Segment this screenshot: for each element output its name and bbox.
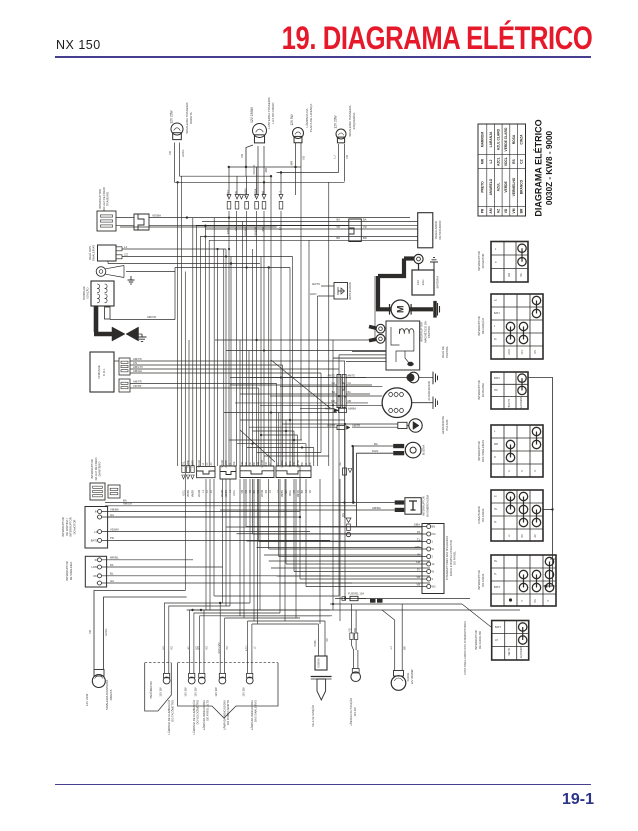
svg-text:BRANCO: BRANCO [520, 179, 524, 194]
svg-text:AM/GA: AM/GA [123, 502, 132, 506]
panel connector pin 3 [427, 577, 431, 581]
svg-text:SELTR: SELTR [509, 648, 511, 656]
CDI connector lower [119, 379, 130, 392]
svg-text:AM/BR: AM/BR [225, 460, 228, 468]
svg-text:PARTIDA: PARTIDA [427, 326, 431, 338]
svg-text:12V 23W: 12V 23W [170, 110, 174, 123]
wire starter relay AV [346, 361, 386, 363]
battery thick cable [404, 256, 414, 260]
panel connector pin 2 [427, 555, 431, 559]
svg-text:12V 3W: 12V 3W [242, 687, 246, 697]
svg-text:PLACA DE LICENÇA: PLACA DE LICENÇA [309, 104, 313, 133]
CDI connector upper [119, 358, 130, 375]
wire headlight [394, 640, 396, 671]
wire strip downfeeds left [205, 479, 207, 610]
lamp front right turn signal [92, 675, 105, 688]
svg-text:ALTERNADOR: ALTERNADOR [427, 381, 431, 401]
bullet fuse left [342, 597, 346, 601]
svg-text:LÂMPADA DE ILUMINAÇÃO: LÂMPADA DE ILUMINAÇÃO [166, 700, 171, 734]
svg-text:AM/BA: AM/BA [372, 506, 381, 510]
cable connector arrows [112, 327, 125, 341]
svg-text:MR: MR [264, 167, 268, 172]
wire horn DGN [357, 453, 394, 527]
alternator ground [412, 397, 438, 410]
svg-text:12V 3W: 12V 3W [184, 687, 188, 697]
svg-text:INTERRUPTOR: INTERRUPTOR [422, 496, 426, 515]
svg-text:C.D.I.: C.D.I. [102, 368, 106, 376]
svg-text:DIREITA: DIREITA [189, 112, 193, 124]
svg-text:W3: W3 [432, 585, 436, 589]
svg-text:CZ: CZ [124, 252, 128, 256]
svg-text:E: E [508, 470, 511, 472]
svg-text:R/A: R/A [508, 273, 511, 278]
svg-text:DE FAROL ALTO: DE FAROL ALTO [206, 700, 210, 721]
wire rear left signal VD [344, 144, 346, 182]
thick stub to relay terminals [369, 327, 376, 329]
wire bus y176 [180, 175, 272, 177]
wire mesh junction dots [228, 248, 230, 250]
battery [412, 270, 434, 295]
svg-text:12V 23W: 12V 23W [334, 115, 338, 128]
svg-text:IG: IG [494, 338, 497, 341]
flasher relay RELE DAS SINALEIRAS [98, 245, 117, 261]
starter motor brackets [390, 304, 412, 315]
bullet pair VM/TR right [337, 425, 345, 429]
svg-text:PR: PR [294, 490, 296, 494]
bullet connector VD [235, 195, 239, 210]
svg-text:MR: MR [286, 490, 288, 494]
svg-text:12V 4W: 12V 4W [354, 707, 357, 717]
svg-text:DO PONTO MORTO: DO PONTO MORTO [226, 700, 230, 725]
svg-text:VD: VD [504, 208, 508, 213]
wire cable to ground [137, 333, 142, 335]
svg-text:DO FAROL: DO FAROL [481, 508, 485, 522]
svg-text:INTERRUPTORES DAS SINALEIRAS: INTERRUPTORES DAS SINALEIRAS [445, 536, 449, 580]
svg-text:AT: AT [495, 639, 498, 642]
svg-text:TACÔMETRO: TACÔMETRO [148, 680, 153, 698]
wire switch A GA [102, 516, 280, 518]
svg-text:VM/BR: VM/BR [282, 490, 284, 498]
connector front brake light switch [90, 483, 105, 500]
wire CDI AM/TR [114, 360, 119, 362]
svg-text:IN: IN [95, 510, 98, 514]
svg-text:MR: MR [290, 160, 294, 165]
svg-text:RETIFICADOR: RETIFICADOR [438, 221, 442, 240]
pulse generator connector [398, 422, 407, 428]
svg-text:PR: PR [266, 490, 268, 494]
alternator [382, 388, 412, 418]
svg-text:DN: DN [93, 574, 97, 578]
svg-text:DE SINALEIRA: DE SINALEIRA [69, 562, 73, 581]
svg-text:2: 2 [432, 555, 434, 559]
svg-text:VD/AM: VD/AM [198, 490, 201, 497]
svg-text:BUZ/TO: BUZ/TO [509, 399, 511, 408]
svg-text:PR: PR [110, 536, 114, 540]
svg-text:CONT PARA CABOS NOS INTERRUPTO: CONT PARA CABOS NOS INTERRUPTORES [463, 621, 467, 675]
spark plug [317, 679, 326, 700]
svg-text:GERADOR DE: GERADOR DE [441, 416, 445, 434]
grid interruptor da buzina [491, 372, 528, 409]
svg-text:VD/VM: VD/VM [262, 460, 264, 467]
svg-text:DIANTEIRO: DIANTEIRO [98, 462, 102, 477]
svg-text:VERDE CLARO: VERDE CLARO [504, 127, 508, 151]
grid interruptor do farol [491, 555, 556, 606]
wire front brake BA [105, 502, 395, 504]
switch box A pin IN [98, 510, 102, 514]
svg-text:LJ: LJ [306, 490, 308, 492]
svg-text:DIAGRAMA ELÉTRICO: DIAGRAMA ELÉTRICO [534, 119, 544, 216]
bullet connector AZCL [227, 195, 231, 210]
svg-text:CA: CA [332, 382, 336, 385]
svg-text:VM/BR: VM/BR [192, 490, 194, 498]
wire rear brake switch to body [116, 217, 134, 219]
svg-text:1: 1 [495, 247, 497, 251]
svg-text:M: M [396, 306, 406, 314]
svg-text:PARTIDA: PARTIDA [445, 346, 449, 358]
svg-text:AM/TO: AM/TO [348, 375, 356, 378]
svg-text:12V 23W: 12V 23W [85, 694, 89, 707]
svg-text:VERDE: VERDE [504, 181, 508, 193]
wire switch A VM/BA [102, 511, 300, 513]
svg-text:AZ: AZ [210, 462, 213, 466]
svg-text:12V 3W: 12V 3W [158, 687, 162, 697]
ignition coil flange [311, 676, 332, 678]
battery terminal ring [414, 254, 423, 263]
svg-text:DE PARTIDA /: DE PARTIDA / [65, 518, 69, 535]
svg-text:GA: GA [110, 513, 114, 517]
regulator connector block [349, 219, 362, 242]
wire panel 13/N [269, 548, 427, 550]
regulator rectifier [418, 213, 433, 248]
starter motor ground bar [433, 301, 436, 318]
wire switch B GA [102, 582, 353, 584]
colour code table [478, 124, 526, 216]
header rule [55, 56, 591, 58]
svg-text:VD: VD [206, 646, 209, 650]
diode box [334, 283, 348, 300]
svg-text:AZCL: AZCL [233, 460, 236, 467]
wire flasher CZ [122, 256, 293, 258]
clutch switch terminal lower [395, 508, 405, 512]
svg-text:VM: VM [512, 208, 516, 213]
wire starter relay VD/VM [339, 354, 386, 356]
wire rear right signal AZCL [179, 143, 181, 177]
svg-text:AM: AM [257, 462, 260, 466]
bullet connector VD double [240, 195, 244, 200]
svg-text:DO MOTOR: DO MOTOR [481, 254, 485, 269]
svg-text:BUZINA: BUZINA [422, 445, 426, 456]
battery ground [433, 262, 435, 270]
svg-text:AMARELO: AMARELO [489, 178, 493, 195]
svg-text:PRETO: PRETO [481, 181, 485, 193]
svg-text:BA: BA [520, 273, 523, 277]
wire horn AM mesh [126, 271, 175, 273]
svg-text:SINALEIRAS: SINALEIRAS [92, 245, 96, 262]
wire starter relay PA [333, 357, 386, 359]
svg-text:VD: VD [345, 154, 349, 159]
svg-text:INTERRUPTOR: INTERRUPTOR [474, 630, 478, 649]
grid interruptor das sinaleiras [491, 425, 543, 477]
wire front signal VD [94, 591, 185, 670]
svg-text:1: 1 [432, 540, 434, 544]
svg-text:MR: MR [481, 158, 485, 164]
svg-text:INTERRUPTOR: INTERRUPTOR [61, 517, 65, 536]
svg-text:VD/BR: VD/BR [188, 490, 190, 497]
bullet connector MR [262, 195, 266, 210]
wire CDI AM/LTV [130, 368, 339, 370]
switch box B pin LDM [98, 565, 102, 569]
svg-text:INTERRUPTOR: INTERRUPTOR [477, 251, 481, 270]
svg-text:AÇO NADO: AÇO NADO [520, 397, 523, 409]
svg-text:AZCL: AZCL [246, 644, 249, 651]
svg-text:BOBINA: BOBINA [318, 658, 321, 668]
wire panel 2Y [294, 571, 427, 573]
wire panel VB [300, 578, 427, 580]
starter relay box [386, 321, 420, 370]
svg-text:VM/BA: VM/BA [110, 507, 119, 511]
svg-text:WR: WR [494, 443, 498, 446]
svg-text:DAS SINALEIRAS: DAS SINALEIRAS [254, 700, 258, 722]
bullet pair AM/BA right [339, 408, 347, 412]
wire regulator BA1 [202, 221, 418, 223]
wire panel Z3 [253, 533, 427, 535]
svg-text:DO VELOCÍMETRO: DO VELOCÍMETRO [196, 700, 200, 724]
svg-text:VD/BA: VD/BA [152, 214, 161, 218]
wire position lamp [351, 640, 353, 646]
switch box starter/engine-stop [85, 507, 108, 549]
svg-text:FAROL E BUZINA CONECTOR: FAROL E BUZINA CONECTOR [449, 540, 453, 577]
header chapter title 19. DIAGRAMA ELETRICO [281, 20, 592, 57]
svg-text:BA: BA [363, 217, 367, 221]
svg-text:BA: BA [332, 391, 336, 394]
svg-text:VD/MV: VD/MV [110, 527, 119, 531]
svg-text:MR/BL: MR/BL [110, 556, 119, 560]
wire diode AM/O [318, 295, 335, 297]
svg-text:BAT3: BAT3 [495, 626, 501, 629]
wire cluster VDCL/VM [219, 651, 221, 673]
svg-text:BOMBA DE: BOMBA DE [82, 286, 86, 300]
svg-text:BR: BR [302, 490, 304, 494]
wire tail light VD/AM [257, 146, 259, 195]
lamp left rear turn signal 12V 23W [336, 129, 346, 143]
wire flasher LJ [122, 248, 226, 250]
connector strip 3 [220, 466, 236, 479]
wire condenser AM/VD [110, 319, 175, 321]
svg-text:KM: KM [432, 532, 436, 536]
svg-text:INTERRUPTOR: INTERRUPTOR [477, 570, 481, 589]
cluster lamp DO PONTO MORTO [219, 677, 226, 684]
position lamp [351, 672, 361, 682]
pulse generator [409, 419, 422, 432]
svg-text:INTERRUPTOR: INTERRUPTOR [477, 316, 481, 335]
wire switch A VD/MV [102, 531, 310, 533]
wire regulator BA2 [205, 228, 417, 230]
switch box A pin I [98, 515, 102, 519]
svg-text:DO FAROL: DO FAROL [481, 573, 485, 587]
svg-text:BAT2: BAT2 [494, 377, 500, 380]
svg-text:VD: VD [170, 646, 173, 650]
svg-text:LARANJA: LARANJA [489, 131, 493, 147]
svg-text:BA: BA [374, 442, 378, 446]
svg-text:VM/TR: VM/TR [352, 424, 360, 428]
svg-text:IM: IM [417, 553, 420, 557]
wire diagonal to farol aux grid [462, 604, 492, 628]
svg-text:MARROM: MARROM [481, 132, 485, 147]
cluster lamp DO VELOCÍMETRO [188, 677, 195, 684]
wire connector to ground [419, 377, 433, 379]
svg-text:13/N: 13/N [415, 545, 421, 549]
wire panel KM [286, 563, 427, 565]
svg-text:BN: BN [432, 525, 436, 529]
thick cable motor to ground [410, 307, 433, 311]
svg-text:ON: ON [534, 350, 537, 354]
wire plate lamp VD [300, 143, 302, 167]
svg-text:DA BUZINA: DA BUZINA [481, 383, 485, 397]
svg-text:MR: MR [162, 646, 165, 650]
svg-text:DG: DG [339, 462, 342, 466]
panel connector box [422, 524, 444, 594]
svg-text:LOCK: LOCK [508, 348, 511, 355]
svg-text:AÇO NADO: AÇO NADO [520, 646, 523, 658]
svg-text:VELA DE IGNIÇÃO: VELA DE IGNIÇÃO [312, 705, 315, 727]
svg-text:Hi: Hi [494, 521, 497, 524]
svg-text:AZ: AZ [534, 534, 537, 538]
wire mesh horizontals [120, 226, 277, 228]
svg-text:FAROL: FAROL [406, 672, 410, 681]
horn BUZINA [405, 442, 421, 458]
svg-text:LJ: LJ [389, 646, 393, 649]
wire rear left signal LJ [338, 144, 340, 173]
connector rear brake light switch [97, 211, 116, 231]
wire bullet feeds [228, 167, 230, 195]
wire alternator feeds [352, 386, 382, 388]
thick cable battery to motor [378, 276, 391, 309]
bullet connector LJ [279, 195, 283, 210]
wire horn BA [354, 446, 394, 503]
dark bullet pair headlight [370, 599, 376, 603]
svg-text:AZCL: AZCL [182, 489, 185, 496]
svg-text:VD: VD [168, 150, 172, 155]
svg-text:BAT3: BAT3 [494, 586, 500, 589]
svg-text:L: L [494, 430, 496, 433]
svg-text:AZ: AZ [269, 462, 272, 466]
wire front brake AM/GA [105, 505, 357, 507]
wire diagonal harness 2 [240, 430, 275, 462]
svg-text:AZUL CLARO: AZUL CLARO [497, 128, 501, 150]
cluster lamp DE FAROL ALTO [198, 677, 205, 684]
svg-text:DGN: DGN [372, 449, 378, 453]
clutch switch INTERRUPTOR DA EMBREAGEM [405, 498, 421, 515]
grid interruptor de ignicao [491, 294, 543, 359]
wire rear brake switch VD/BA long [149, 217, 410, 219]
wire cluster junctions [191, 609, 193, 611]
svg-text:AM/TO: AM/TO [312, 282, 320, 286]
ignition switch thick ground cable [96, 306, 113, 334]
svg-text:INTERRUPTOR: INTERRUPTOR [90, 459, 94, 478]
svg-text:LJ: LJ [489, 160, 493, 164]
svg-text:RELÉ DE: RELÉ DE [440, 346, 445, 358]
svg-text:LÂMPADA INDICADORA: LÂMPADA INDICADORA [223, 700, 227, 730]
wire cluster MR [199, 651, 201, 673]
svg-text:LÂMPADA DE POSIÇÃO: LÂMPADA DE POSIÇÃO [350, 698, 353, 726]
condenser [105, 307, 111, 319]
wire flasher gnd CZ [107, 261, 109, 264]
svg-text:R: R [494, 456, 496, 459]
ground connector pair [433, 372, 438, 385]
svg-text:VD: VD [88, 629, 92, 634]
svg-text:VD: VD [310, 462, 312, 466]
svg-text:AZUL: AZUL [497, 183, 501, 192]
panel connector pin BN [427, 525, 431, 529]
switch box A pin BAT2 [98, 538, 102, 542]
wire front signal AZCL [104, 597, 187, 669]
wire coil [317, 630, 319, 656]
svg-text:12V 5W: 12V 5W [290, 114, 294, 125]
svg-text:BA: BA [337, 217, 341, 221]
svg-text:VD: VD [310, 490, 312, 494]
wire mesh verticals left bundle [177, 182, 179, 466]
svg-text:AM/TR: AM/TR [133, 379, 142, 383]
panel connector pin KM [427, 532, 431, 536]
svg-text:0030Z - KW8 - 9000: 0030Z - KW8 - 9000 [545, 130, 554, 205]
svg-text:DA LUZ DE FREIO: DA LUZ DE FREIO [94, 458, 98, 481]
switch box A pin LS [98, 530, 102, 534]
connector strip 2 [197, 466, 215, 477]
svg-text:VM: VM [242, 490, 244, 494]
wire bus y182 [175, 181, 345, 183]
svg-text:PR: PR [266, 462, 268, 466]
svg-text:MR: MR [198, 646, 201, 650]
svg-text:AM/GA: AM/GA [133, 369, 142, 373]
svg-text:1: 1 [494, 325, 496, 328]
svg-text:+2: +2 [494, 299, 497, 302]
svg-text:Z3: Z3 [417, 530, 421, 534]
grid comutador do farol [491, 490, 543, 541]
svg-text:KM: KM [416, 560, 420, 564]
speedometer drive / horn body left [96, 267, 106, 277]
svg-text:PR: PR [226, 646, 229, 650]
svg-text:12V 23/8W: 12V 23/8W [250, 107, 254, 123]
svg-text:AZ: AZ [210, 489, 213, 493]
wire arrow into farol grid [550, 559, 556, 586]
svg-text:BAT1: BAT1 [494, 312, 500, 315]
svg-text:VD: VD [250, 462, 252, 466]
lamp license plate 12V 5W [293, 128, 304, 143]
svg-text:W: W [432, 570, 435, 574]
horn terminal lower [393, 451, 404, 455]
svg-text:LÂMPADA INDICADORA: LÂMPADA INDICADORA [202, 700, 206, 730]
svg-text:AZCL: AZCL [182, 460, 185, 467]
wire clutch AM/BA [220, 509, 395, 511]
svg-text:LJ: LJ [203, 463, 205, 465]
wire regulator VD2 [200, 236, 418, 238]
bullet connector VD/AM [245, 195, 249, 210]
wire rear right signal VD [174, 143, 176, 183]
svg-text:LÂMPADA INDICADORA: LÂMPADA INDICADORA [250, 700, 254, 730]
svg-text:D: D [534, 470, 537, 472]
svg-text:12: 12 [432, 562, 435, 566]
svg-text:INTERRUPTOR: INTERRUPTOR [65, 561, 69, 580]
svg-text:LJ: LJ [333, 155, 337, 159]
wire mesh verticals centre bundle [217, 249, 219, 466]
wire mesh verticals right bundle [332, 340, 334, 605]
svg-text:VD: VD [302, 155, 306, 160]
svg-text:3AH: 3AH [421, 280, 425, 286]
svg-text:BL: BL [110, 572, 114, 576]
wire cluster risers [164, 603, 250, 651]
panel connector pin W3 [427, 585, 431, 589]
ground main cable [138, 334, 147, 341]
